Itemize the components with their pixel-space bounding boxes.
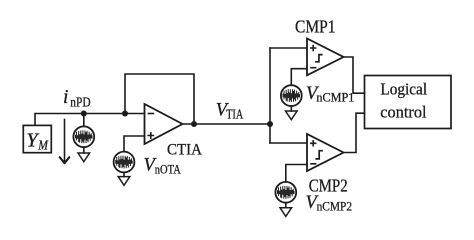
svg-text:control: control (380, 102, 427, 121)
svg-text:CTIA: CTIA (167, 142, 202, 159)
svg-text:M: M (37, 137, 48, 152)
svg-text:Logical: Logical (380, 80, 427, 99)
svg-text:nCMP2: nCMP2 (317, 199, 353, 214)
svg-text:i: i (63, 87, 68, 108)
svg-text:CMP1: CMP1 (295, 17, 336, 37)
svg-text:nPD: nPD (70, 95, 90, 110)
svg-text:nOTA: nOTA (155, 162, 181, 177)
svg-text:nCMP1: nCMP1 (316, 90, 354, 105)
svg-text:TIA: TIA (226, 106, 243, 121)
